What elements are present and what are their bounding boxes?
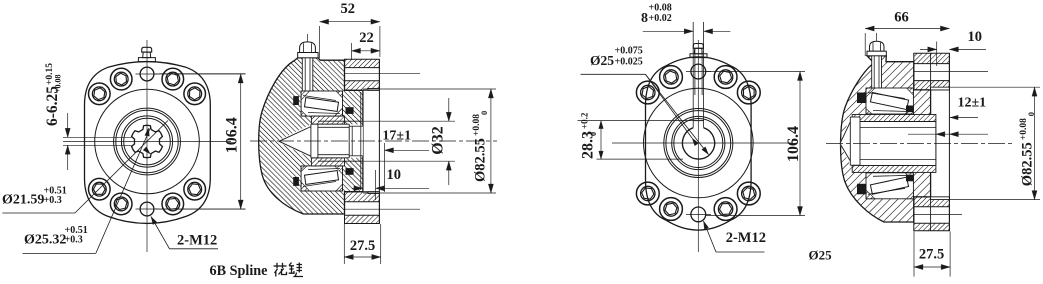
- leader lines for Ø25: [581, 73, 646, 75]
- bottom tapered roller: [305, 171, 339, 185]
- grease bolt centerline: [307, 34, 309, 44]
- left view M12 tapped hole (bottom): [140, 202, 154, 216]
- left section: housing body (hatched): [259, 58, 363, 214]
- right section: grease bolt channel: [872, 53, 882, 92]
- svg-text:+0.2: +0.2: [580, 112, 590, 129]
- seals bottom bearing: [857, 184, 867, 195]
- right view centerlines: [697, 40, 699, 252]
- right section: mounting plate top block: [914, 53, 950, 90]
- bore cone notch lines: [279, 127, 311, 142]
- keyway/dim-8 extension lines: [692, 22, 694, 128]
- svg-text:2-M12: 2-M12: [177, 232, 217, 248]
- right section: top bearing pocket: [866, 88, 913, 114]
- right view pilot circle: [644, 88, 754, 198]
- seal (black) right of top bearing: [346, 107, 354, 114]
- left section: grease bolt hex flange: [298, 53, 318, 58]
- spline bore top/bottom to boss face: [349, 125, 363, 127]
- svg-text:2-M12: 2-M12: [726, 230, 766, 246]
- right view bolt hole 8: [737, 182, 760, 205]
- thrust washer: [310, 124, 312, 158]
- right section: housing body (hatched): [841, 56, 931, 222]
- svg-text:10: 10: [387, 167, 402, 183]
- right view hub circles: [664, 109, 733, 178]
- svg-text:Ø82.55: Ø82.55: [473, 138, 489, 182]
- dimension text 6-6.25 +0.15/+0.08: [44, 63, 63, 126]
- svg-text:+0.08: +0.08: [472, 114, 482, 136]
- svg-text:0: 0: [1026, 112, 1036, 116]
- svg-text:106.4: 106.4: [785, 126, 802, 162]
- right section: grease bolt head: [870, 41, 885, 51]
- left view bolt hole 2: [110, 68, 132, 90]
- left section centerline: [250, 140, 497, 142]
- right view bolt hole 4: [636, 81, 659, 104]
- hanzi 花: [274, 263, 287, 277]
- svg-text:66: 66: [894, 10, 909, 26]
- plate pilot recess step (top): [368, 88, 379, 90]
- hanzi 键: [289, 263, 303, 277]
- leader for Ø21.59: [2, 212, 75, 214]
- left view centerlines: [146, 40, 148, 252]
- svg-text:Ø25: Ø25: [590, 53, 614, 68]
- right section: shaft bore (white): [840, 117, 936, 165]
- dimension Ø82.55 (right section): [931, 86, 1040, 88]
- seal (black) left of top bearing: [293, 96, 299, 105]
- dimension 22: [351, 43, 353, 60]
- right view M12 hole top: [691, 64, 706, 79]
- svg-text:Ø82.55: Ø82.55: [1020, 142, 1036, 186]
- right section: hub walls (hatched): [852, 115, 936, 122]
- dimension 106.4 (right view): [706, 71, 805, 73]
- dimension 27.5 (left section): [343, 224, 345, 264]
- left view bolt hole 6: [162, 193, 184, 215]
- svg-text:106.4: 106.4: [224, 117, 241, 153]
- svg-text:22: 22: [359, 30, 374, 46]
- leader for Ø25.32: [23, 252, 96, 254]
- left section: spline bore cavity (white): [279, 124, 363, 158]
- svg-text:+0.08: +0.08: [54, 74, 63, 93]
- spline start verticals: [348, 124, 350, 158]
- shaft end face: [935, 122, 937, 166]
- svg-text:Ø25: Ø25: [809, 248, 833, 263]
- dimension 28.3 +0.2/0: [578, 120, 695, 122]
- dimension 106.4 (left view): [155, 73, 246, 75]
- left view bolt hole 5: [110, 193, 132, 215]
- left view M12 tapped hole (top): [140, 67, 154, 81]
- svg-text:Ø32: Ø32: [430, 126, 447, 154]
- left section: bottom bearing pocket: [301, 166, 342, 191]
- svg-text:+0.02: +0.02: [649, 13, 672, 24]
- svg-text:52: 52: [341, 1, 356, 17]
- svg-text:8: 8: [641, 11, 648, 26]
- svg-text:Ø21.59: Ø21.59: [2, 193, 44, 208]
- seal (black) right of bottom bearing: [346, 168, 354, 175]
- keyway slot: [693, 120, 703, 122]
- left view bolt hole 7: [89, 178, 111, 200]
- right section: bottom bearing pocket: [866, 173, 913, 199]
- plate pilot recess step (bottom): [368, 192, 379, 194]
- right view bolt hole 3: [737, 81, 760, 104]
- dimension 27.5 (right section): [913, 232, 915, 277]
- dimension Ø82.55 +0.08/0 (left section): [363, 88, 496, 90]
- svg-text:+0.3: +0.3: [44, 195, 62, 206]
- seal (black) left of bottom bearing: [293, 177, 299, 186]
- left front view: flange outline: [85, 62, 211, 224]
- right view bolt hole 7: [636, 182, 659, 205]
- right section M12 centerlines: [914, 71, 988, 73]
- right section centerline: [826, 142, 1014, 144]
- right view bolt hole 6: [714, 198, 737, 221]
- svg-text:0: 0: [479, 111, 489, 115]
- left view pilot circle (Ø82.55 boss): [95, 89, 200, 194]
- grease fitting on right flange top: [693, 44, 703, 49]
- right view bolt hole 2: [660, 66, 683, 89]
- dimension 52: [319, 26, 321, 58]
- left view bolt hole 3: [184, 83, 206, 105]
- plate faces: [948, 53, 950, 230]
- left section: hub walls (hatched): [311, 116, 344, 124]
- dimension 12±1 leader line upper: [950, 117, 978, 119]
- washer right section: [849, 117, 851, 165]
- left section: mounting plate top block (hatched): [345, 59, 380, 90]
- dimension 6-6.25 dim line and arrows: [67, 113, 69, 137]
- svg-text:+0.075: +0.075: [615, 46, 643, 57]
- svg-text:12±1: 12±1: [958, 96, 987, 111]
- left section: grease bolt channel (white): [302, 55, 313, 91]
- boss chamfer line: [360, 92, 362, 190]
- svg-text:+0.3: +0.3: [65, 235, 83, 246]
- svg-text:17±1: 17±1: [382, 129, 411, 144]
- plate right face full line: [378, 59, 380, 223]
- right view bolt hole 5: [660, 198, 683, 221]
- left section: mounting plate bottom block (hatched): [345, 192, 380, 224]
- right front view: flange outline: [646, 57, 752, 230]
- right view bolt hole 1: [714, 66, 737, 89]
- grease bolt centerline: [876, 33, 878, 44]
- svg-text:10: 10: [968, 29, 983, 45]
- dimension Ø32: [361, 120, 455, 122]
- left view bolt hole 4: [89, 83, 111, 105]
- svg-text:27.5: 27.5: [350, 238, 375, 254]
- svg-text:+0.08: +0.08: [649, 3, 672, 14]
- seals top bearing: [857, 93, 867, 104]
- svg-text:6B Spline: 6B Spline: [210, 263, 268, 279]
- dimension 66: [864, 33, 866, 56]
- M12 band centerlines through plate: [159, 73, 246, 75]
- grease fitting on left flange top: [142, 47, 152, 52]
- left section: grease bolt head: [300, 42, 316, 53]
- spline major diameter lines in section: [318, 120, 363, 122]
- left view bolt hole 1: [162, 68, 184, 90]
- plate pilot recess steps (right): [931, 87, 950, 90]
- right section: grease bolt hex flange: [867, 51, 886, 56]
- right view Ø25 bore circle with keyway: [682, 128, 714, 159]
- svg-text:27.5: 27.5: [919, 247, 944, 263]
- dimension 6-6.25 extension lines (spline tooth gap): [63, 136, 132, 138]
- left view inner circles: [114, 108, 181, 175]
- svg-text:Ø25.32: Ø25.32: [24, 233, 66, 248]
- shaft bore inner lines: [860, 126, 936, 128]
- svg-text:+0.025: +0.025: [615, 57, 643, 68]
- svg-text:0: 0: [589, 132, 598, 136]
- left view bolt hole 8: [184, 178, 206, 200]
- right view M12 hole bottom: [691, 207, 706, 222]
- bore inner step lines: [318, 126, 349, 128]
- 6B spline profile: [132, 125, 163, 157]
- right section: mounting plate bottom block: [914, 197, 950, 231]
- svg-text:+0.08: +0.08: [1019, 118, 1029, 140]
- left section: top bearing pocket: [301, 91, 342, 116]
- top tapered roller: [305, 98, 339, 112]
- leader for 2-M12: [170, 248, 219, 250]
